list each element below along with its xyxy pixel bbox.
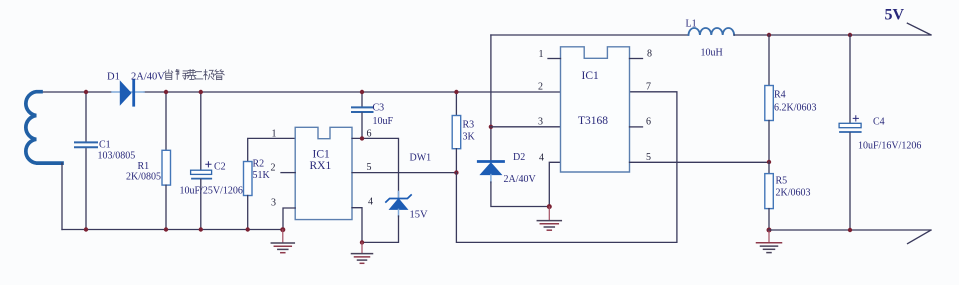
inductor L1 (686, 19, 735, 59)
svg-text:C3: C3 (373, 103, 385, 114)
node: junction C4 bottom (848, 228, 852, 232)
svg-text:D2: D2 (513, 152, 525, 163)
node: junction R4 top (767, 33, 771, 37)
svg-text:T3168: T3168 (578, 115, 608, 127)
svg-text:103/0805: 103/0805 (98, 151, 136, 162)
svg-text:8: 8 (647, 49, 652, 60)
svg-text:1: 1 (272, 129, 277, 140)
node: junction R1 bottom (164, 227, 168, 231)
power flag 5V (885, 7, 931, 35)
svg-text:5: 5 (646, 152, 651, 163)
label: Schottky diode Chinese text (simulated CJK glyphs) (165, 69, 225, 79)
svg-text:L1: L1 (686, 19, 697, 30)
svg-text:10uF/16V/1206: 10uF/16V/1206 (858, 141, 921, 152)
ground A (271, 230, 294, 253)
svg-text:C4: C4 (873, 117, 885, 128)
svg-text:C2: C2 (214, 161, 226, 172)
node: junction ground A (280, 227, 285, 232)
svg-text:5V: 5V (885, 7, 905, 24)
svg-text:6: 6 (646, 116, 651, 127)
ground D (757, 230, 782, 253)
node: junction DW1/pin4 ground (360, 240, 364, 244)
node: junction R5 bottom (767, 228, 772, 233)
resistor R5 (765, 162, 811, 230)
node: junction pin6/C3 (360, 136, 364, 140)
node: junction R3 bottom / loop (454, 170, 458, 174)
svg-text:IC1: IC1 (582, 70, 600, 82)
node: junction R3 top (454, 90, 458, 94)
output flag (bottom right) (908, 230, 931, 243)
node: junction D2/pin4 ground (547, 204, 552, 209)
wire: coil bottom down to bottom rail (61, 163, 63, 229)
pin 1 of T3168 (stub) (539, 49, 561, 60)
pin 2 of RX1 (stub) (271, 163, 296, 174)
svg-text:2K/0603: 2K/0603 (776, 188, 811, 199)
pin 1 of RX1 (272, 129, 277, 140)
node: junction C1 bottom (84, 227, 88, 231)
node: junction R4/R5/pin5 (767, 160, 771, 164)
svg-text:10uF: 10uF (373, 116, 394, 127)
svg-text:6.2K/0603: 6.2K/0603 (774, 103, 817, 114)
svg-text:3K: 3K (463, 132, 476, 143)
node: junction C2 top (199, 90, 203, 94)
diode D2 (478, 152, 549, 207)
wire: bottom-right rail (769, 229, 931, 231)
svg-text:1: 1 (539, 49, 544, 60)
diode D1 (107, 72, 165, 106)
svg-text:R2: R2 (253, 159, 265, 170)
ground C (537, 207, 561, 231)
wire: top rail L1 to 5V arrow (734, 34, 931, 36)
wire: feedback loop to T3168 pin7 (456, 92, 677, 243)
svg-text:10uF/25V/1206: 10uF/25V/1206 (180, 186, 243, 197)
svg-text:R3: R3 (463, 120, 475, 131)
wire: bottom-left rail y=229.5 (62, 229, 283, 231)
svg-text:7: 7 (646, 81, 651, 92)
pin 4 of RX1 (352, 197, 373, 243)
resistor R4 (765, 35, 817, 162)
node: junction C1 top (84, 90, 88, 94)
svg-text:4: 4 (539, 152, 544, 163)
svg-text:DW1: DW1 (410, 153, 432, 164)
pin 5 of RX1 / wire to R3 bottom (352, 153, 456, 174)
svg-text:R4: R4 (774, 90, 786, 101)
node: junction C4 top (848, 33, 852, 37)
pin 3 of T3168 (538, 116, 543, 127)
node: junction C3 top (360, 90, 364, 94)
svg-text:6: 6 (367, 129, 372, 140)
svg-text:R5: R5 (776, 176, 788, 187)
svg-text:3: 3 (538, 116, 543, 127)
pin 4 of T3168 (539, 152, 561, 206)
capacitor C3 (352, 92, 394, 138)
svg-text:2: 2 (271, 163, 276, 174)
svg-text:2K/0805: 2K/0805 (126, 172, 161, 183)
svg-text:D1: D1 (107, 72, 120, 83)
wire: top-left rail y=92 (coil to D1 anode) (37, 91, 111, 93)
capacitor C4 (polarized) (839, 35, 921, 230)
pin 3 of RX1 (271, 198, 295, 230)
zener diode DW1 15V (362, 192, 428, 243)
svg-text:10uH: 10uH (701, 48, 723, 59)
capacitor C1 (75, 92, 135, 230)
ground B (352, 242, 373, 263)
svg-text:2: 2 (538, 82, 543, 93)
pin 8 of T3168 (stub) (630, 49, 653, 60)
svg-text:RX1: RX1 (310, 160, 332, 172)
node: junction R2 bottom (246, 227, 250, 231)
resistor R3 (452, 92, 475, 173)
resistor R1 (126, 92, 171, 230)
op-amp IC1 RX1 box (295, 127, 352, 219)
svg-text:15V: 15V (410, 210, 429, 221)
svg-text:2A/40V: 2A/40V (131, 72, 165, 83)
svg-text:5: 5 (367, 162, 372, 173)
wire: top rail y=35 from corner to L1 (491, 34, 689, 36)
svg-text:4: 4 (368, 197, 373, 208)
node: junction R1 top (164, 90, 168, 94)
svg-text:IC1: IC1 (313, 149, 331, 161)
wire: 5V branch top corner down to D2 (490, 35, 492, 160)
wire: pin3 T3168 to D2 branch (491, 126, 561, 128)
pin 6 of T3168 (stub) (630, 116, 652, 127)
resistor R2 (244, 138, 296, 229)
pin 7 of T3168 (646, 81, 651, 92)
node: junction C2 bottom (199, 227, 203, 231)
pin 2 of T3168 (538, 82, 543, 93)
svg-text:2A/40V: 2A/40V (504, 174, 537, 185)
IC U2 T3168 box (561, 47, 630, 172)
node: junction D2/pin3 (489, 125, 493, 129)
svg-text:51K: 51K (253, 170, 271, 181)
pin 5 of T3168 / wire to R4-R5 junction (630, 152, 770, 163)
pin 6 of RX1 / wire to DW1 top (352, 129, 399, 198)
svg-text:R1: R1 (138, 161, 150, 172)
inductor coil (left pickup coil) (26, 92, 62, 163)
capacitor C2 (polarized) (180, 92, 243, 230)
svg-text:3: 3 (271, 198, 276, 209)
wire: rail y=92 from D1 cathode to T3168 pin2 (144, 91, 561, 93)
svg-text:C1: C1 (99, 140, 111, 151)
